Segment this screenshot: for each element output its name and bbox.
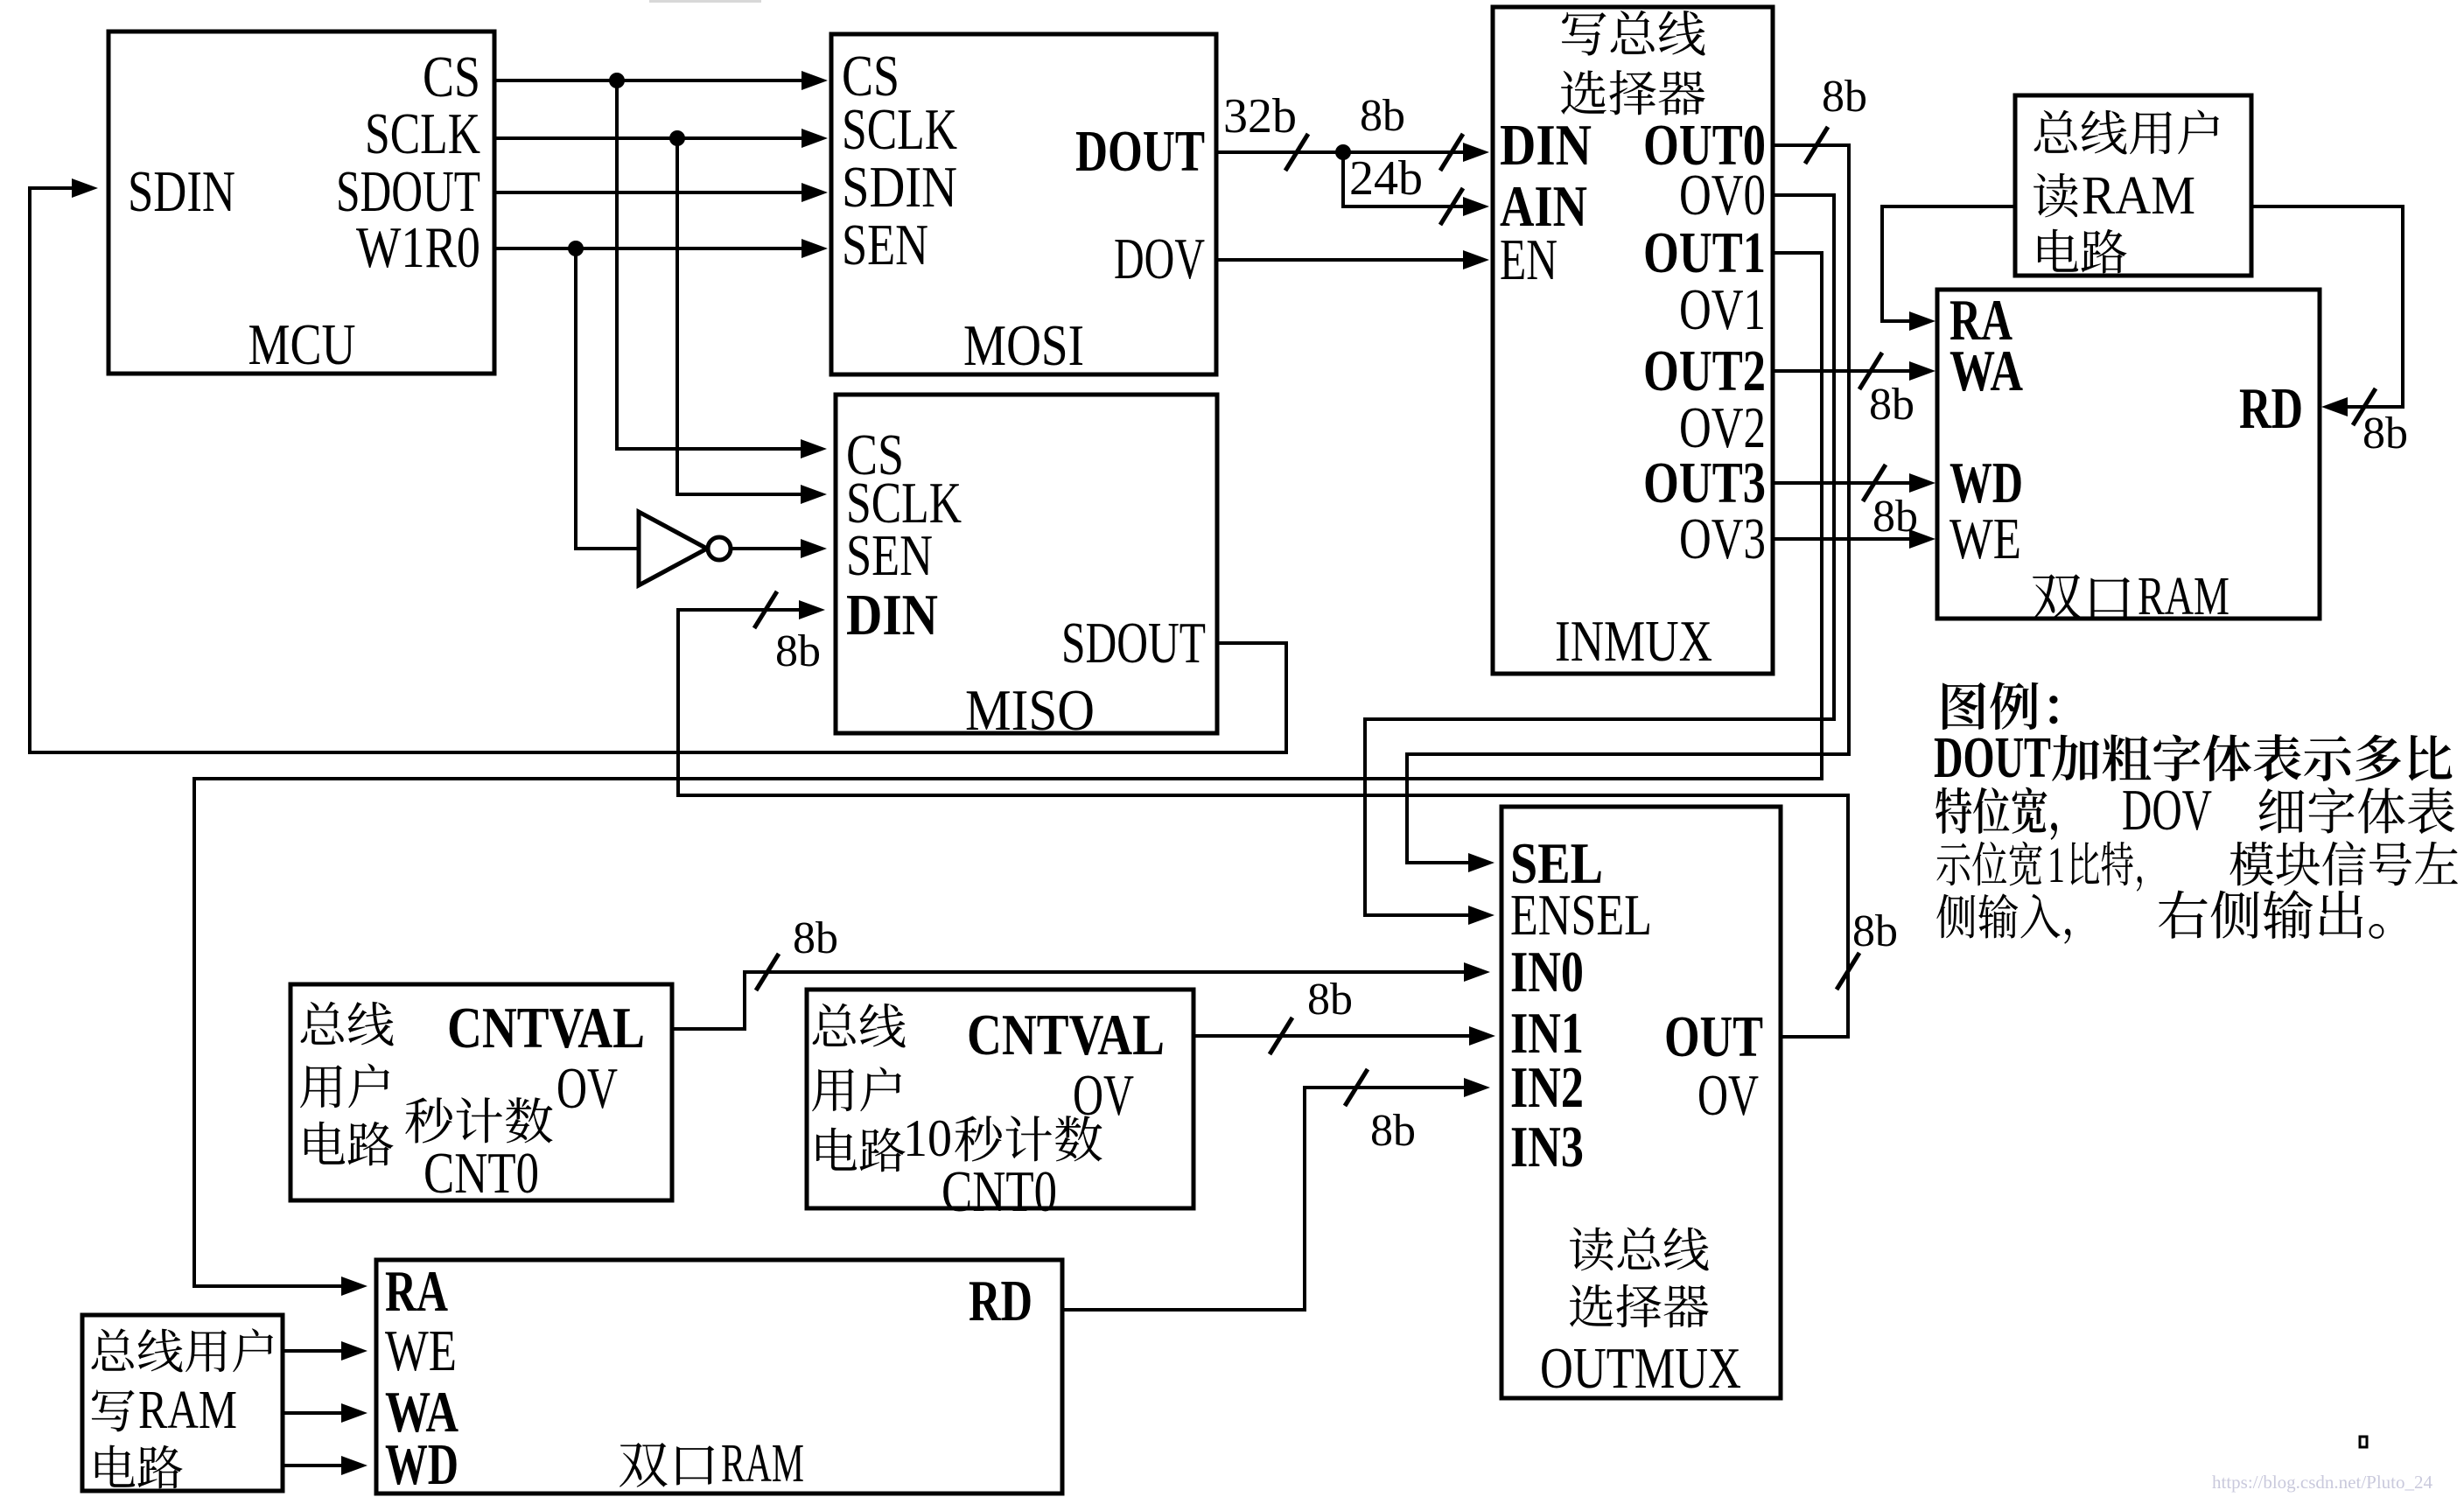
svg-text:1: 1 <box>2047 836 2065 893</box>
svg-text:https://blog.csdn.net/Pluto_24: https://blog.csdn.net/Pluto_24 <box>2212 1472 2433 1493</box>
svg-text:SDOUT: SDOUT <box>336 159 480 224</box>
svg-text:WE: WE <box>385 1319 457 1383</box>
svg-text:8b: 8b <box>1822 72 1867 122</box>
svg-text:RD: RD <box>969 1269 1032 1333</box>
svg-text:IN3: IN3 <box>1510 1115 1584 1179</box>
svg-text:8b: 8b <box>793 913 838 963</box>
svg-text:RA: RA <box>385 1259 448 1324</box>
svg-text:SEN: SEN <box>842 213 928 277</box>
svg-text:SDIN: SDIN <box>128 159 235 224</box>
svg-text:8b: 8b <box>1307 975 1353 1025</box>
svg-text:WD: WD <box>385 1432 458 1497</box>
svg-text:OV1: OV1 <box>1679 277 1766 342</box>
svg-text:OV: OV <box>1073 1063 1134 1128</box>
svg-text:EN: EN <box>1500 227 1557 292</box>
svg-text:SCLK: SCLK <box>365 101 480 166</box>
svg-text:OUTMUX: OUTMUX <box>1540 1336 1741 1401</box>
svg-text:CS: CS <box>423 45 480 109</box>
svg-text:CNT0: CNT0 <box>941 1159 1057 1224</box>
svg-text:8b: 8b <box>1869 380 1914 430</box>
svg-text:WA: WA <box>1949 339 2023 403</box>
svg-text:WE: WE <box>1949 507 2021 571</box>
svg-text:RAM: RAM <box>2138 567 2229 626</box>
svg-text:OUT2: OUT2 <box>1643 339 1766 403</box>
svg-text:OUT3: OUT3 <box>1643 451 1766 515</box>
svg-text:8b: 8b <box>1370 1106 1416 1156</box>
svg-text:DOV: DOV <box>2122 778 2212 843</box>
svg-text:RAM: RAM <box>721 1434 804 1494</box>
svg-text:W1R0: W1R0 <box>356 215 480 280</box>
svg-text:8b: 8b <box>1360 91 1405 141</box>
svg-text:ENSEL: ENSEL <box>1510 883 1652 948</box>
svg-text:DOUT: DOUT <box>1934 725 2051 790</box>
svg-text:OV: OV <box>556 1056 618 1121</box>
svg-text:MISO: MISO <box>965 678 1095 743</box>
svg-text:8b: 8b <box>775 626 821 676</box>
svg-text:OUT: OUT <box>1664 1004 1763 1069</box>
svg-text:8b: 8b <box>2362 409 2408 458</box>
svg-text:CNTVAL: CNTVAL <box>967 1003 1165 1067</box>
svg-text:SDIN: SDIN <box>842 155 957 220</box>
svg-text:RAM: RAM <box>138 1381 237 1440</box>
svg-text:INMUX: INMUX <box>1555 609 1712 674</box>
svg-text:MOSI: MOSI <box>963 313 1084 378</box>
svg-text:OUT1: OUT1 <box>1643 220 1766 285</box>
svg-text:CNTVAL: CNTVAL <box>447 996 645 1060</box>
svg-text:OV: OV <box>1697 1063 1759 1128</box>
svg-text:24b: 24b <box>1349 151 1423 206</box>
svg-text:WD: WD <box>1949 451 2023 515</box>
svg-text:DOUT: DOUT <box>1075 119 1205 184</box>
svg-text:RAM: RAM <box>2082 166 2195 226</box>
svg-text:OV3: OV3 <box>1679 507 1766 571</box>
svg-text:CNT0: CNT0 <box>423 1141 539 1206</box>
svg-text:MCU: MCU <box>248 312 356 377</box>
svg-text:DIN: DIN <box>846 583 938 647</box>
svg-text:IN0: IN0 <box>1510 940 1584 1004</box>
svg-text:OV0: OV0 <box>1679 163 1766 227</box>
svg-text:SDOUT: SDOUT <box>1061 611 1206 675</box>
svg-text:SEN: SEN <box>846 523 933 588</box>
svg-text:32b: 32b <box>1223 89 1297 143</box>
svg-text:DOV: DOV <box>1114 227 1205 291</box>
svg-text:8b: 8b <box>1852 906 1898 956</box>
svg-text:DIN: DIN <box>1500 113 1592 178</box>
svg-text:RD: RD <box>2239 376 2303 441</box>
svg-text:SCLK: SCLK <box>842 97 957 162</box>
svg-text:IN2: IN2 <box>1510 1055 1584 1120</box>
